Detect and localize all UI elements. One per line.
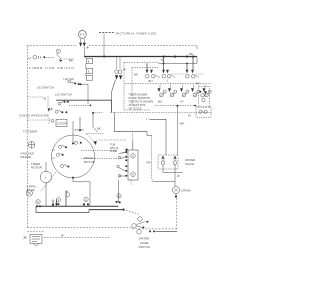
check pressure contacts row 1: [58, 102, 61, 105]
wire through timer motor: [45, 162, 47, 206]
svg-text:5: 5: [88, 70, 90, 74]
drain out: [175, 194, 177, 197]
svg-text:6: 6: [88, 60, 90, 64]
selector top wire: [132, 141, 134, 150]
motor internal contact d: [75, 141, 78, 144]
wire to valve routing: [115, 112, 152, 135]
svg-text:CONTACTS SHOWN: CONTACTS SHOWN: [129, 100, 154, 104]
svg-text:WH: WH: [180, 122, 185, 126]
svg-text:4: 4: [132, 173, 134, 177]
dashed h y112.8 right: [152, 112, 211, 114]
row2 contacts: [158, 88, 206, 92]
border tick top right: [196, 46, 198, 49]
svg-text:IN OFF POSITION: IN OFF POSITION: [129, 96, 151, 100]
circled contact D: [117, 194, 121, 198]
svg-text:FRAME: FRAME: [21, 155, 31, 159]
terminal GR: [39, 56, 41, 59]
junction mark: [87, 46, 90, 49]
plug neutral lead to bus: [83, 47, 85, 57]
mark plus: [123, 68, 126, 71]
water level contact OH: [138, 217, 142, 221]
water level arm: [136, 221, 145, 224]
wire from pair down-left: [112, 80, 116, 101]
dashed wire y133: [86, 133, 104, 135]
selector bottom stub: [130, 180, 132, 185]
terminal block box 4: [86, 76, 92, 81]
bottom left connector box: [30, 235, 42, 244]
svg-text:5: 5: [37, 200, 39, 204]
dashed diag to arrow: [87, 134, 94, 142]
right bank separator y84: [125, 83, 211, 85]
svg-text:LID SWITCH: LID SWITCH: [55, 93, 72, 97]
riser blobs: [52, 204, 54, 206]
wire to line switch: [46, 56, 54, 58]
svg-text:W: W: [177, 174, 180, 178]
riser contact circle: [66, 193, 70, 197]
speed selector box: [128, 150, 138, 180]
wire between blocks: [85, 57, 87, 76]
svg-text:1: 1: [167, 78, 169, 82]
motor left edge marks: [52, 150, 55, 158]
svg-text:W: W: [188, 114, 191, 118]
outer dashed border left: [26, 46, 28, 228]
dashed wire y140: [97, 139, 126, 141]
plug wire L: [80, 39, 82, 43]
header leader wire: [103, 34, 105, 57]
circled contact C: [84, 197, 88, 201]
connector tail: [33, 243, 39, 245]
row1 circles: [146, 75, 150, 79]
svg-text:BK: BK: [190, 52, 194, 56]
arm circles: [118, 156, 121, 159]
svg-text:TO TIMER: TO TIMER: [23, 129, 37, 133]
dashed wire y112: [111, 111, 153, 113]
svg-text:RD: RD: [147, 161, 151, 165]
contact below text: [51, 119, 54, 122]
svg-text:MOTOR: MOTOR: [31, 166, 42, 170]
right box contact: [201, 94, 204, 97]
cutoff box: [56, 119, 67, 126]
right bank inner dashed box: [132, 67, 158, 105]
svg-text:2: 2: [57, 50, 59, 54]
svg-text:BU: BU: [158, 100, 162, 104]
valve out wires: [163, 165, 183, 186]
wire WH: [177, 106, 179, 155]
water level out wire: [156, 231, 178, 233]
solenoid cold: [174, 157, 176, 161]
wire drop x118: [117, 180, 119, 202]
svg-text:PUMP: PUMP: [110, 150, 118, 153]
bottom dashed stub: [27, 231, 44, 233]
bus riser wires: [53, 191, 66, 207]
solenoid hot: [162, 157, 164, 161]
svg-text:BK: BK: [134, 73, 138, 77]
wire dashes to bus: [64, 58, 75, 60]
terminal block box 5: [86, 68, 92, 73]
timer motor M1: [40, 171, 52, 183]
row2 stubs: [160, 85, 205, 89]
svg-text:PICTORIAL TIMER 0103: PICTORIAL TIMER 0103: [116, 31, 156, 35]
timer contact pair below bus: [117, 57, 121, 70]
circled contact A: [36, 200, 40, 204]
svg-text:W: W: [44, 97, 47, 101]
water level contact OF: [132, 224, 136, 228]
row1 drops: [147, 57, 193, 71]
sub wire y63.5: [159, 57, 198, 64]
row1 triangles: [146, 70, 194, 74]
svg-text:LID SWITCH: LID SWITCH: [37, 85, 54, 89]
terminal dot: [43, 56, 45, 58]
wire down right of lid sw: [93, 113, 98, 132]
motor bottom junction: [72, 177, 74, 179]
contact 4: [131, 172, 136, 177]
motor center stub: [72, 135, 74, 143]
wire y181.5: [153, 181, 176, 183]
right dashed border: [132, 198, 177, 229]
svg-text:T: T: [45, 176, 47, 180]
row2 slashes: [160, 93, 210, 97]
outer dashed border bottom: [27, 227, 132, 229]
timer line switch contact (circled 2): [56, 49, 60, 53]
bottom bus left: [36, 205, 118, 207]
check pressure contacts row 2: [55, 110, 58, 113]
svg-text:DRAIN: DRAIN: [182, 188, 191, 192]
wire from lid switch: [80, 84, 88, 104]
plug lead arrowheads: [79, 43, 86, 47]
dashed stub y97: [27, 96, 44, 98]
frame ground symbol: [28, 142, 35, 149]
svg-text:AT REST POS: AT REST POS: [129, 103, 146, 107]
bus junction blobs: [103, 56, 194, 58]
motor internal contact b: [56, 153, 59, 156]
terminal block box 6: [86, 58, 92, 63]
drive motor circle: [52, 135, 95, 178]
lid switch contacts: [68, 80, 71, 83]
bottom bus right seg: [89, 209, 123, 211]
circled contact B: [56, 198, 60, 202]
outer dashed border top: [27, 45, 197, 47]
svg-text:BK: BK: [97, 127, 101, 131]
selector input blobs: [125, 151, 127, 153]
wire lid switch to timer: [56, 100, 112, 112]
x mark: [24, 236, 27, 239]
svg-text:W: W: [61, 233, 64, 237]
small dashed box right: [199, 86, 210, 108]
row1 link dashes: [171, 73, 204, 75]
svg-text:3: 3: [132, 154, 134, 158]
dashes to water level: [126, 211, 140, 215]
selector input arms: [119, 152, 126, 176]
bottom dashed wire W: [44, 237, 110, 239]
svg-text:2: 2: [85, 198, 87, 202]
motor bottom wire: [73, 178, 90, 206]
water level contact low: [137, 230, 141, 234]
svg-text:MOTOR: MOTOR: [84, 160, 95, 164]
svg-text:BU: BU: [149, 79, 153, 83]
svg-text:3: 3: [58, 198, 60, 202]
dashed wire x48: [47, 97, 49, 109]
wire RD drop: [150, 119, 166, 155]
motor internal contact a: [59, 145, 62, 148]
water valve dashed box: [158, 155, 178, 169]
bottom loop: [36, 206, 89, 212]
drain motor: [172, 186, 179, 193]
svg-text:L1: L1: [28, 56, 32, 60]
main bus wire: [84, 56, 197, 58]
mini box under separator: [196, 106, 211, 117]
junction cross: [50, 108, 53, 111]
svg-text:CHECK PRESSURE: CHECK PRESSURE: [19, 114, 49, 118]
right bank separator y105: [155, 105, 196, 107]
svg-text:OF CYCLE: OF CYCLE: [129, 107, 142, 111]
plug wire N: [83, 39, 85, 43]
right bank outer dashed box: [124, 62, 158, 110]
svg-text:TIMER SHOWN: TIMER SHOWN: [129, 93, 148, 97]
dashed riser to y181: [151, 136, 154, 182]
dashed link to timer motor: [41, 172, 56, 191]
svg-text:BK: BK: [196, 82, 200, 86]
row1 slashes: [155, 75, 199, 78]
header dash: [99, 32, 114, 34]
wires motor to selector dashed: [81, 150, 117, 158]
dashed stub y120: [27, 119, 50, 121]
svg-text:BK: BK: [69, 59, 73, 63]
motor internal contact c: [61, 165, 64, 168]
svg-text:TIMER LINE SWITCH: TIMER LINE SWITCH: [29, 66, 75, 70]
caption contact: [125, 149, 128, 153]
svg-text:VALVE: VALVE: [185, 162, 194, 166]
motor top wire: [72, 121, 74, 135]
pilot lamp: [26, 190, 32, 196]
svg-text:START: START: [75, 128, 85, 132]
svg-text:CUTOFF: CUTOFF: [57, 122, 68, 125]
contact 3: [131, 154, 136, 159]
power plug P1: [79, 31, 87, 39]
svg-text:SWITCH: SWITCH: [139, 245, 151, 249]
svg-text:GY: GY: [180, 100, 184, 104]
wire x80 down: [79, 117, 81, 130]
